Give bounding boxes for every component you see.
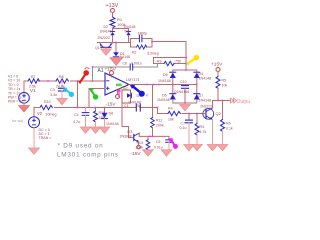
junction dots R4 row [188,113,190,115]
svg-text:1800p: 1800p [138,31,148,35]
svg-text:D8: D8 [109,112,114,116]
resistor R8 24.9k [56,75,68,89]
svg-text:R9: R9 [157,60,162,64]
transistor Q2 2N2222 [200,105,222,120]
svg-text:R13: R13 [137,141,143,145]
svg-text:Out: Out [120,86,128,92]
wire feedback top run to x186 [152,42,186,71]
defs [8,3,252,158]
svg-text:Q2: Q2 [216,111,222,116]
svg-text:D5: D5 [163,73,168,77]
wire loop top [131,38,140,40]
svg-text:10k: 10k [222,84,228,88]
svg-text:200k: 200k [156,124,164,128]
svg-text:2N3906: 2N3906 [120,135,132,139]
svg-text:3.3meg: 3.3meg [147,52,159,56]
wire R9 short top [154,58,187,64]
resistor R11 33k branch [94,108,105,128]
junction dots input row [47,80,49,82]
wire R1 to D2/D3 [112,28,114,31]
svg-text:A1: A1 [98,68,104,74]
ground under diode stack [180,105,191,111]
diode D5 1N4148 [158,72,176,83]
capacitor C5 0.01u branch [154,136,172,149]
wire loop bottom [131,46,137,48]
op-amp A1 LM7171 [98,68,140,95]
diode stack top wire y70 [173,70,197,72]
svg-text:15p: 15p [135,104,141,108]
capacitor C7 0.1u branch [180,114,193,145]
diode D4 1N4148 [194,72,211,81]
svg-text:-15V: -15V [131,151,142,157]
junction dots on x186 [185,57,187,59]
svg-text:10k: 10k [168,118,174,122]
op-amp V+ supply [105,67,117,78]
svg-text:4.7k: 4.7k [200,130,207,134]
wire comp net to Q3 base [122,103,134,138]
wire +13V to R1 [112,13,114,18]
junction dots collector row [149,136,151,138]
resistor R9 750 [157,60,181,66]
svg-text:4.7u: 4.7u [73,120,80,124]
svg-text:D4: D4 [199,72,204,76]
capacitor C4 4.7u branch [73,108,89,128]
svg-text:D7: D7 [199,94,204,98]
svg-text:V2: V2 [37,111,43,116]
svg-text:v: v [146,94,148,98]
wire +in [89,89,105,108]
capacitor C6 0.001u gray net [93,62,158,82]
svg-text:Q3: Q3 [127,129,133,134]
svg-text:750: 750 [175,60,181,64]
svg-text:0.01u: 0.01u [154,145,163,149]
svg-text:R10: R10 [44,100,51,104]
node +13V supply [106,3,119,13]
wire main bus y107.5 [36,107,40,109]
ground (selected solid) under V1 [19,106,30,112]
diode D8 1N4148 branch [102,108,119,128]
caption comment text [57,143,119,159]
junction dot gray net [92,66,94,68]
resistor R12 200k [151,118,164,128]
svg-text:C6: C6 [123,62,128,66]
ground under C5 [161,150,172,156]
svg-text:Q1: Q1 [95,46,100,50]
svg-text:1N4148: 1N4148 [199,99,212,103]
annotation arrow yellow [186,55,199,66]
annotation arrow green [89,88,98,99]
svg-text:2N2222: 2N2222 [98,36,110,40]
svg-text:1N4148: 1N4148 [106,122,119,126]
ground under D8 [99,127,110,133]
svg-text:1N4148: 1N4148 [100,29,112,33]
svg-text:R2: R2 [132,51,137,55]
resistor R3 4.7k branch [195,114,206,145]
resistor R13 100k [136,136,150,149]
V1 parameter text [8,75,23,104]
wire Q3 emitter to -15V [138,142,140,145]
wire V1 to ground [23,103,25,106]
ground under R3 [192,145,203,151]
diode D1 1N4148 [113,52,130,59]
ground under C7 [184,145,195,151]
annotation arrow magenta [168,138,178,149]
wire D1 branch [115,43,117,53]
svg-text:100k: 100k [136,146,144,150]
diode stack bottom wire y103 [173,100,197,104]
wire Q3 collector row [139,135,169,137]
svg-text:+15V: +15V [211,62,223,68]
svg-text:C7: C7 [181,122,186,126]
ground under Q2 emitter [207,145,218,151]
diode D3 1N4148 [124,25,136,35]
svg-text:R4: R4 [168,107,173,111]
wires diode stack mid verticals [172,78,174,94]
voltage source V1 pulse [19,81,36,103]
transistor Q1 2N2222 [95,36,112,50]
resistor R2 3.3meg [132,45,159,56]
ground (large) under D1 [110,58,123,66]
wire R9 row [154,63,165,65]
node -15V under Q3 [131,145,142,157]
svg-text:0.1k: 0.1k [226,127,233,131]
resistor R6 0.1k branch [221,101,233,145]
svg-text:R12: R12 [156,119,162,123]
wire branch x77.5 to bus [77,81,79,108]
svg-text:R5: R5 [222,79,227,83]
svg-text:Output: Output [237,99,251,105]
transistor Q3 2N3906 [120,129,140,142]
svg-text:C1: C1 [124,104,129,108]
junction dots output row [146,84,148,86]
wire loop right side [151,39,153,48]
resistor R5 10k [216,77,227,101]
svg-text:LM301 comp pins: LM301 comp pins [57,151,119,158]
svg-text:D6: D6 [162,94,167,98]
ground under C3 [57,99,68,105]
svg-text:PER = 4s: PER = 4s [8,100,23,104]
ground under R13 [143,150,154,156]
svg-text:1N4148: 1N4148 [199,77,212,81]
wire Q1 emitter stub [105,47,107,49]
svg-text:for adj: for adj [12,119,23,123]
wire Q2 emitter down to ground [212,120,214,145]
op-amp V- supply [106,91,120,108]
svg-text:D3: D3 [125,29,130,33]
junction dot loop tap [151,41,153,43]
svg-text:10meg: 10meg [46,113,57,117]
wire column R12 (output to R13) [152,85,154,118]
wire op-amp output row y84.5 [129,84,197,86]
annotation arrow pink (comp pin) [117,88,121,97]
comp pins box [122,90,131,103]
capacitor C1 15p [124,104,141,111]
resistor R10 10meg [40,100,57,117]
wire input row y81 [24,80,28,82]
resistor R4 10k [168,107,180,122]
ground under C4 [80,127,91,133]
svg-text:1N4148: 1N4148 [158,79,171,83]
wire Q2 collector up [212,101,214,109]
green marker at comp pin [116,84,122,87]
svg-text:1N4148: 1N4148 [157,98,170,102]
capacitor C3 branch (salmon stub) [50,81,66,99]
diode D7 1N4148 [194,94,211,103]
svg-text:R8: R8 [59,75,64,79]
capacitor C2 1800p [138,31,148,41]
resistor R1 100k [110,17,126,28]
ground under R11 [90,127,101,133]
resistor R7 2.5k [28,75,39,89]
svg-text:C10: C10 [180,80,187,84]
svg-text:C5: C5 [156,140,161,144]
wire Q3 collector to column [138,133,140,136]
svg-text:R3: R3 [200,125,205,129]
svg-text:R6: R6 [226,122,231,126]
diode D2 1N4148 [100,25,115,35]
wire R4 row y113.5 [157,108,159,114]
junction dots on bus [77,107,79,109]
wire output row y100.5 [213,100,231,102]
ground under Q1 [101,49,112,55]
wire row y42.5 [98,42,131,44]
V2 parameter text [39,128,52,140]
svg-text:3.3u: 3.3u [50,93,57,97]
svg-text:C3: C3 [50,88,55,92]
svg-text:LM7171: LM7171 [126,78,140,82]
svg-text:V1: V1 [30,88,36,93]
ground under V2 [29,148,40,154]
svg-text:C4: C4 [74,113,79,117]
wire top join to D3 [113,29,129,32]
svg-text:-15V: -15V [106,101,117,107]
annotation arrow red [78,68,89,84]
port Output [231,98,253,105]
wire feedback loop left [130,39,132,48]
svg-text:2N2222: 2N2222 [200,105,213,109]
svg-text:0.1u: 0.1u [180,126,187,130]
svg-text:R7: R7 [31,75,36,79]
annotation arrow cyan [63,88,75,97]
wire D2/D3 bottoms to node row y42.5 [112,36,114,43]
svg-text:* D9 used on: * D9 used on [58,143,104,150]
svg-text:TRAN =: TRAN = [39,136,52,140]
diode D9 1N4148 (comp pins) [127,93,141,104]
annotation arrow blue (at op-amp output) [130,85,148,98]
node +15V right [211,62,223,77]
diode D6 1N4148 [157,94,176,103]
voltage source V2 AC [29,108,43,128]
svg-text:1N4148: 1N4148 [124,25,136,29]
capacitor C10 1u center [180,80,189,103]
ground under R6 [217,145,228,151]
wire V2 to ground (salmon) [33,128,35,148]
